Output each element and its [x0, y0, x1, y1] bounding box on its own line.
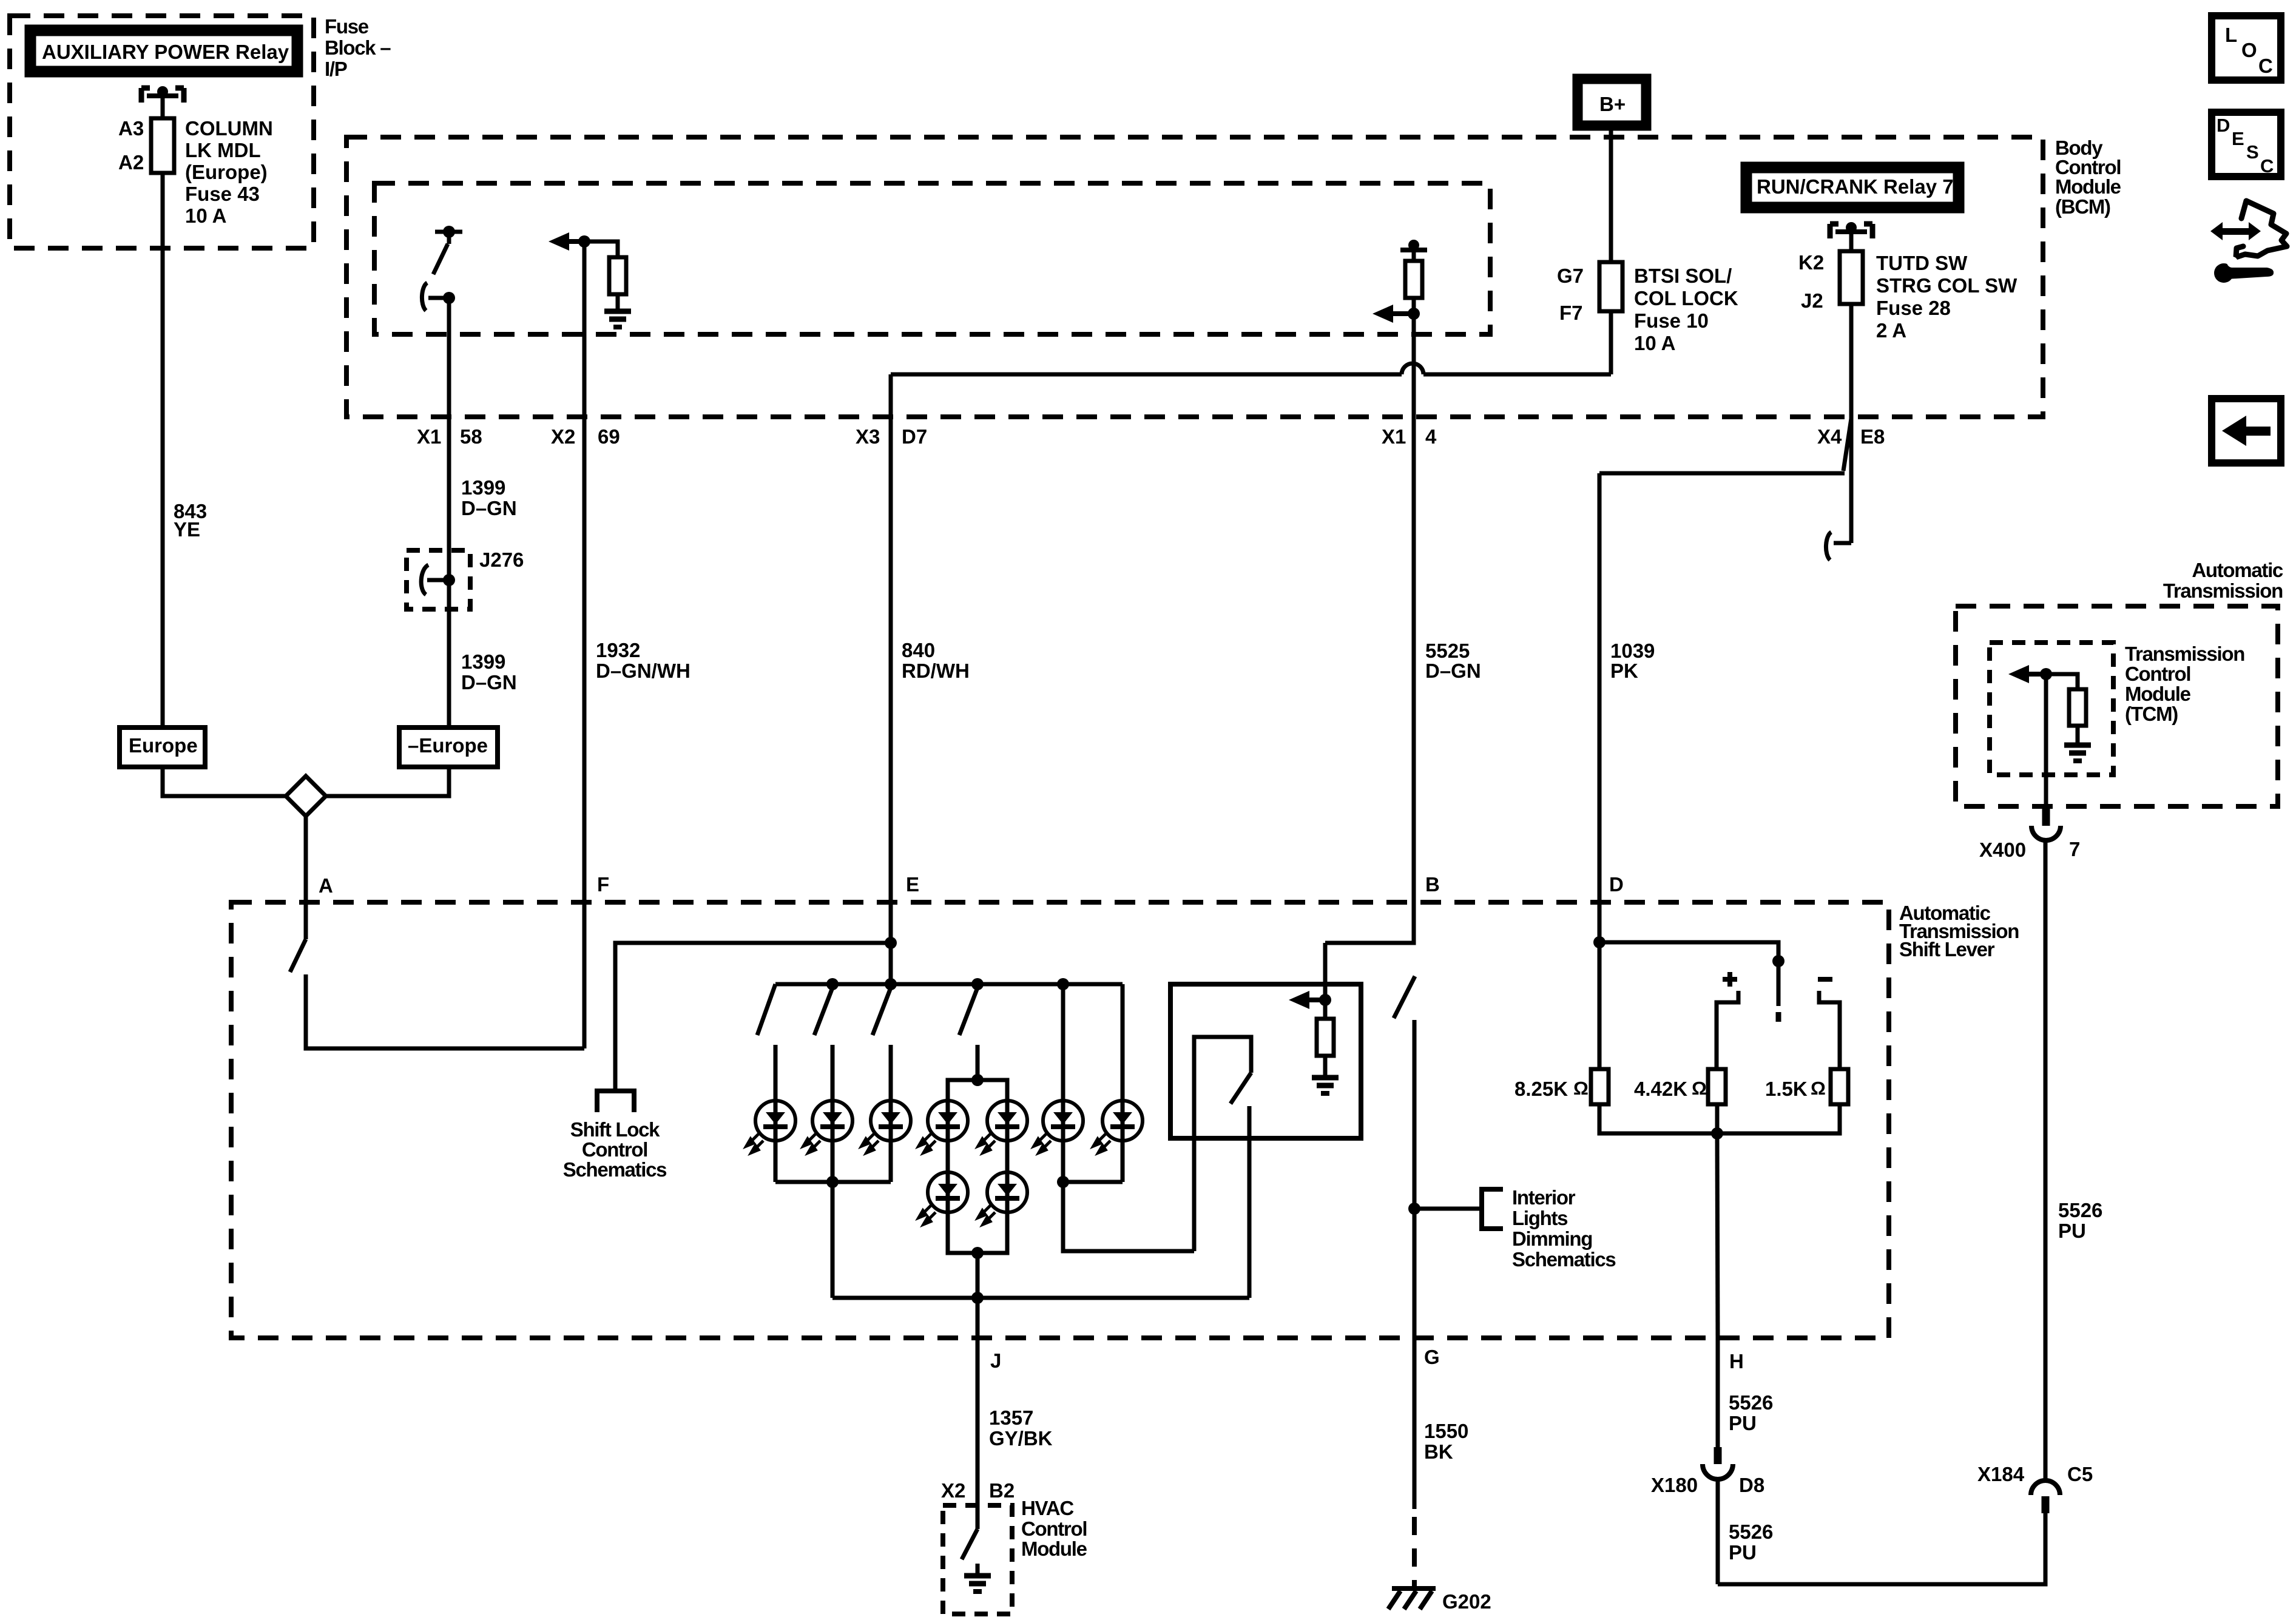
select box switch blade	[1231, 1073, 1251, 1104]
svg-text:5526: 5526	[2058, 1199, 2102, 1221]
svg-text:HVAC: HVAC	[1021, 1497, 1073, 1519]
wire 1550 BK solid	[1413, 1338, 1417, 1509]
wire 1039 PK	[1598, 473, 1602, 1069]
minus sign	[1818, 977, 1832, 982]
rocker common lower stub	[1776, 1012, 1781, 1022]
wire 1357 GY/BK	[976, 1298, 980, 1505]
label 1357 GY/BK	[989, 1406, 1053, 1450]
label Shift Lock Control Schematics	[563, 1118, 666, 1181]
wire shift lock branch	[615, 943, 891, 1091]
wire terminal to fuse	[161, 96, 165, 118]
wire E8 branch to 1039	[1599, 471, 1845, 476]
svg-text:X2: X2	[941, 1479, 965, 1502]
relay contact terminal	[141, 86, 184, 103]
label 1399 D-GN upper	[461, 476, 517, 519]
icon back arrow box	[2212, 399, 2281, 463]
label Transmission Control Module (TCM)	[2125, 643, 2244, 725]
svg-text:F: F	[597, 873, 609, 896]
LED D8	[919, 1172, 968, 1224]
label COLUMN LK MDL (Europe) Fuse 43 10 A	[185, 117, 273, 227]
shift lever outer dashed box	[231, 902, 1889, 1338]
node dot E shift-lock branch	[885, 937, 897, 949]
svg-text:O: O	[2241, 39, 2257, 61]
node dot TCM	[2040, 668, 2052, 680]
label HVAC Control Module	[1021, 1497, 1087, 1560]
svg-text:Block –: Block –	[325, 36, 391, 59]
pin label X2 B2	[941, 1479, 1015, 1502]
wire bus to LED D6	[1061, 984, 1065, 1101]
wire 5526 PU right	[2044, 840, 2048, 1480]
svg-text:E: E	[2232, 128, 2244, 149]
plus sign	[1723, 972, 1737, 987]
label 4.42K ohm	[1634, 1078, 1707, 1100]
pin A	[319, 874, 333, 897]
svg-text:C5: C5	[2067, 1463, 2093, 1485]
svg-text:1550: 1550	[1424, 1420, 1468, 1442]
label Fuse Block - I/P	[325, 15, 391, 80]
svg-text:1399: 1399	[461, 476, 505, 499]
node dot interior lights	[1408, 1203, 1420, 1215]
node dot X2-69	[578, 235, 590, 248]
svg-text:J: J	[990, 1349, 1001, 1372]
wire LED6 junction to select box leg	[1063, 1182, 1194, 1251]
svg-text:Ω: Ω	[1573, 1078, 1589, 1099]
svg-text:X1: X1	[1382, 425, 1406, 448]
wire 840 feed horizontal with hop	[891, 363, 1611, 374]
icon DESC box	[2212, 112, 2281, 177]
label 5525 D-GN	[1425, 640, 1481, 682]
fuse block I/P dashed box	[10, 16, 314, 248]
label 1932 D-GN/WH	[596, 639, 690, 682]
svg-text:1932: 1932	[596, 639, 640, 661]
page arrow at X1-4	[1373, 305, 1410, 323]
label 1550 BK	[1424, 1420, 1468, 1463]
label Automatic Transmission Shift Lever	[1899, 902, 2019, 960]
plus contact step	[1717, 991, 1738, 1069]
ground in BCM	[604, 311, 631, 327]
wire D branch to rocker common	[1599, 942, 1778, 1006]
BCM outer dashed box	[346, 137, 2043, 417]
svg-text:Ω: Ω	[1692, 1078, 1707, 1099]
pin K2	[1798, 251, 1824, 274]
svg-text:D–GN: D–GN	[461, 497, 517, 519]
svg-text:Fuse 43: Fuse 43	[185, 183, 260, 205]
svg-text:Control: Control	[2125, 663, 2190, 685]
svg-text:–Europe: –Europe	[408, 734, 488, 757]
label X184 C5	[1977, 1463, 2093, 1485]
label J276	[479, 549, 524, 571]
wire terminal to fuse F28	[1849, 232, 1854, 251]
svg-text:RUN/CRANK Relay 7: RUN/CRANK Relay 7	[1757, 175, 1954, 198]
svg-text:5525: 5525	[1425, 640, 1470, 662]
wire fuse F10 down	[1609, 311, 1613, 374]
svg-text:2 A: 2 A	[1876, 319, 1906, 342]
TCM inner dashed box	[1990, 643, 2113, 775]
svg-text:5526: 5526	[1729, 1521, 1773, 1543]
svg-text:PU: PU	[1729, 1412, 1757, 1434]
label 1399 D-GN lower	[461, 650, 517, 694]
switch SW1 for LED1	[757, 984, 775, 1101]
svg-text:Europe: Europe	[129, 734, 198, 757]
power feed B+	[1578, 79, 1646, 126]
wire switch A contact to F	[306, 974, 584, 1048]
chassis ground G202	[1388, 1588, 1436, 1609]
wire LEDs 1-3 lower bus	[775, 1141, 891, 1188]
svg-text:Interior: Interior	[1512, 1186, 1576, 1209]
svg-text:G7: G7	[1557, 265, 1584, 287]
wire LEDs 6-7 lower link	[1057, 1141, 1123, 1188]
wire B+ to fuse	[1609, 126, 1613, 262]
label G202	[1442, 1590, 1491, 1613]
relay RUN/CRANK contact terminal	[1830, 222, 1872, 238]
svg-text:PU: PU	[1729, 1541, 1757, 1564]
wire TCM to X400	[2044, 674, 2048, 807]
LED D4	[919, 1101, 968, 1153]
svg-text:X3: X3	[856, 425, 880, 448]
svg-text:COLUMN: COLUMN	[185, 117, 273, 140]
svg-text:PK: PK	[1610, 660, 1638, 682]
svg-text:Shift Lock: Shift Lock	[570, 1118, 660, 1141]
svg-text:BTSI SOL/: BTSI SOL/	[1634, 265, 1732, 287]
label 5526 PU lower	[1729, 1521, 1773, 1564]
node dot D branch	[1593, 936, 1606, 948]
LED D7	[1093, 1101, 1143, 1153]
svg-text:B2: B2	[989, 1479, 1015, 1502]
svg-text:D–GN: D–GN	[461, 671, 517, 694]
fuse F43 COLUMN LK MDL	[151, 118, 174, 173]
wire diamond to -Europe	[326, 767, 449, 796]
svg-text:(BCM): (BCM)	[2055, 195, 2110, 218]
resistor 1.5K	[1831, 1069, 1848, 1104]
wire 1550 upper (B switch contact to G)	[1413, 1020, 1417, 1338]
page arrow in TCM	[2008, 665, 2046, 683]
LED D2	[803, 1101, 853, 1153]
svg-text:RD/WH: RD/WH	[902, 660, 970, 682]
svg-text:(TCM): (TCM)	[2125, 703, 2178, 725]
wire 1932 D-GN/WH	[582, 241, 587, 1048]
pin H	[1729, 1350, 1744, 1372]
LED D3	[862, 1101, 911, 1153]
svg-text:Shift Lever: Shift Lever	[1899, 938, 1995, 960]
wire LED lower bus to J bus	[831, 1182, 835, 1298]
relay K: AUXILIARY POWER Relay	[30, 30, 297, 72]
inline connector X180-D8	[1703, 1447, 1733, 1479]
wire 5526 PU lower	[1716, 1479, 1720, 1584]
svg-text:4: 4	[1425, 425, 1437, 448]
automatic transmission dashed box	[1956, 606, 2278, 806]
svg-text:10 A: 10 A	[1634, 332, 1675, 354]
svg-text:H: H	[1729, 1350, 1744, 1372]
label 840 RD/WH	[902, 639, 970, 682]
svg-text:X184: X184	[1977, 1463, 2025, 1485]
pin A3	[118, 117, 144, 140]
label Interior Lights Dimming Schematics	[1512, 1186, 1615, 1271]
label 8.25K ohm	[1514, 1078, 1589, 1100]
resistor R4 in TCM	[2046, 674, 2086, 743]
svg-text:Schematics: Schematics	[563, 1158, 666, 1181]
svg-text:Transmission: Transmission	[2163, 579, 2283, 602]
svg-text:D7: D7	[902, 425, 927, 448]
wire H upper	[1717, 1133, 1718, 1338]
svg-text:Fuse 28: Fuse 28	[1876, 297, 1951, 319]
svg-text:I/P: I/P	[325, 58, 347, 80]
svg-text:Dimming: Dimming	[1512, 1227, 1592, 1250]
svg-text:S: S	[2246, 141, 2259, 163]
switch blade TUTD at E8	[1843, 419, 1851, 471]
ground in TCM	[2064, 745, 2091, 761]
svg-text:TUTD SW: TUTD SW	[1876, 252, 1968, 274]
svg-text:Module: Module	[2055, 175, 2121, 198]
svg-text:COL LOCK: COL LOCK	[1634, 287, 1738, 309]
HVAC control module dashed box	[943, 1505, 1012, 1614]
svg-text:5526: 5526	[1729, 1391, 1773, 1414]
svg-text:Schematics: Schematics	[1512, 1248, 1615, 1271]
svg-text:D–GN: D–GN	[1425, 660, 1481, 682]
svg-text:D–GN/WH: D–GN/WH	[596, 660, 690, 682]
svg-text:10 A: 10 A	[185, 204, 226, 227]
relay K2: RUN/CRANK Relay 7	[1746, 167, 1959, 208]
svg-text:1.5K: 1.5K	[1765, 1078, 1808, 1100]
svg-text:Control: Control	[1021, 1517, 1087, 1540]
wire bottom bus to X184	[1718, 1513, 2045, 1584]
label Body Control Module (BCM)	[2055, 137, 2121, 218]
wire 1550 BK dashed tail	[1412, 1517, 1417, 1590]
pin label X1 4	[1382, 425, 1437, 448]
svg-text:8.25K: 8.25K	[1514, 1078, 1568, 1100]
icon swap arrow with wrench	[2210, 201, 2287, 283]
svg-text:B+: B+	[1599, 93, 1626, 115]
node Europe	[120, 727, 205, 767]
label 5526 PU at H	[1729, 1391, 1773, 1434]
page arrow in select box	[1289, 991, 1326, 1009]
svg-text:Control: Control	[582, 1138, 647, 1161]
svg-text:C: C	[2258, 55, 2273, 77]
label BTSI SOL/ COL LOCK Fuse 10 10 A	[1634, 265, 1738, 354]
svg-text:Fuse 10: Fuse 10	[1634, 309, 1709, 332]
page arrow at X2-69 node	[549, 232, 586, 251]
LED D9	[978, 1172, 1027, 1224]
label TUTD SW STRG COL SW Fuse 28 2 A	[1876, 252, 2017, 342]
node dots on LED bus	[826, 978, 1069, 990]
switch A blade	[290, 939, 306, 972]
inline connector X184-C5	[2031, 1480, 2060, 1513]
switch SW4 for LED group	[959, 988, 977, 1080]
wire select box top link	[1323, 943, 1328, 1000]
svg-text:Module: Module	[2125, 683, 2191, 705]
svg-text:D: D	[1609, 873, 1624, 896]
wire X1-58 to J276	[447, 298, 451, 727]
minus contact step	[1819, 991, 1840, 1069]
resistor 4.42K	[1708, 1069, 1726, 1104]
resistor R2 at X1-4	[1405, 250, 1422, 314]
wire 840 RD/WH vertical	[889, 374, 893, 984]
svg-text:G202: G202	[1442, 1590, 1491, 1613]
pin F7	[1559, 302, 1583, 324]
svg-text:BK: BK	[1424, 1440, 1453, 1463]
svg-text:F7: F7	[1559, 302, 1583, 324]
svg-text:GY/BK: GY/BK	[989, 1427, 1053, 1450]
terminal at X1-4 branch	[1400, 240, 1427, 251]
svg-text:Fuse: Fuse	[325, 15, 369, 38]
label Automatic Transmission	[2163, 559, 2283, 602]
pin B	[1425, 873, 1440, 896]
wire Europe to diamond	[163, 767, 286, 796]
pin G7	[1557, 265, 1584, 287]
svg-text:D: D	[2217, 115, 2230, 136]
switch SW2 for LED2	[814, 988, 832, 1101]
svg-text:J276: J276	[479, 549, 524, 571]
wire bus right end to LED D7	[1121, 984, 1125, 1101]
inline connector J276	[407, 550, 470, 609]
inline connector X400-7	[2031, 806, 2061, 840]
wire diamond to switch A	[304, 816, 308, 939]
off-page bracket interior lights	[1482, 1189, 1503, 1229]
resistor 8.25K	[1591, 1069, 1609, 1104]
resistor network bottom bus	[1599, 1104, 1840, 1139]
pin F	[597, 873, 609, 896]
LED D6	[1034, 1101, 1083, 1153]
wire 5525 D-GN	[1412, 314, 1416, 943]
select switch box	[1170, 984, 1361, 1138]
svg-text:1039: 1039	[1610, 640, 1655, 662]
pin J2	[1801, 289, 1823, 312]
svg-text:LK MDL: LK MDL	[185, 139, 261, 161]
LED D5	[978, 1101, 1027, 1153]
svg-text:(Europe): (Europe)	[185, 161, 268, 183]
select box lower contact to J bus	[1248, 1106, 1252, 1298]
svg-text:YE: YE	[174, 518, 200, 541]
svg-text:C: C	[2260, 155, 2274, 177]
label X180 D8	[1651, 1474, 1764, 1496]
pin E	[906, 873, 919, 896]
svg-text:4.42K: 4.42K	[1634, 1078, 1687, 1100]
pin A2	[118, 151, 144, 174]
wire B corner to select box	[1325, 902, 1414, 943]
ground in HVAC	[964, 1564, 991, 1592]
svg-text:X180: X180	[1651, 1474, 1698, 1496]
resistor R1 in BCM	[584, 241, 626, 309]
wire 843 YE	[161, 173, 165, 727]
pin G	[1424, 1346, 1440, 1368]
svg-text:Transmission: Transmission	[2125, 643, 2244, 665]
svg-text:A2: A2	[118, 151, 144, 174]
LED bus wire	[775, 982, 1123, 987]
pin label X1 58	[417, 425, 482, 448]
svg-text:X400: X400	[1979, 839, 2026, 861]
switch SW3 for LED3	[873, 988, 891, 1101]
node dot X1-4	[1408, 308, 1420, 320]
label 1039 PK	[1610, 640, 1655, 682]
label X400 7	[1979, 838, 2080, 861]
svg-text:1357: 1357	[989, 1406, 1033, 1429]
pin label X4 E8	[1817, 425, 1885, 448]
svg-text:J2: J2	[1801, 289, 1823, 312]
pin D	[1609, 873, 1624, 896]
select box inner contact path	[1194, 1037, 1251, 1251]
switch in HVAC	[962, 1505, 977, 1559]
svg-text:PU: PU	[2058, 1220, 2086, 1242]
wire to interior lights bracket	[1414, 1207, 1482, 1211]
icon LOC box	[2212, 16, 2281, 80]
wire TUTD lower contact	[1826, 419, 1851, 560]
svg-text:Lights: Lights	[1512, 1207, 1567, 1229]
fuse F10 BTSI SOL/COL LOCK	[1599, 262, 1622, 311]
svg-text:A3: A3	[118, 117, 144, 140]
wire LED group box to J bus	[976, 1253, 980, 1298]
node dot select box	[1319, 994, 1331, 1006]
svg-text:Ω: Ω	[1811, 1078, 1826, 1099]
svg-text:L: L	[2225, 24, 2237, 46]
switch blade B	[1394, 976, 1415, 1018]
svg-text:A: A	[319, 874, 333, 897]
svg-text:Automatic: Automatic	[2192, 559, 2283, 581]
wire F inside box	[582, 902, 587, 1048]
svg-text:STRG COL SW: STRG COL SW	[1876, 274, 2017, 297]
svg-text:1399: 1399	[461, 650, 505, 673]
svg-text:840: 840	[902, 639, 935, 661]
svg-text:58: 58	[460, 425, 482, 448]
svg-text:E: E	[906, 873, 919, 896]
LED D1	[746, 1101, 795, 1153]
label 1.5K ohm	[1765, 1078, 1826, 1100]
svg-text:D8: D8	[1739, 1474, 1764, 1496]
wire fuse F28 to pin E8	[1849, 304, 1854, 419]
BCM inner dashed box	[374, 183, 1490, 334]
J bottom bus wire	[832, 1292, 1249, 1304]
svg-text:K2: K2	[1798, 251, 1824, 274]
label 5526 PU right	[2058, 1199, 2102, 1242]
node -Europe	[399, 727, 498, 767]
svg-text:E8: E8	[1860, 425, 1885, 448]
node dot rocker	[1772, 955, 1784, 967]
svg-text:7: 7	[2069, 838, 2080, 860]
pin label X2 69	[551, 425, 620, 448]
svg-text:G: G	[1424, 1346, 1440, 1368]
svg-text:B: B	[1425, 873, 1440, 896]
label 843 YE	[174, 500, 207, 541]
pin J	[990, 1349, 1001, 1372]
svg-text:69: 69	[598, 425, 620, 448]
wire H to X180	[1716, 1338, 1720, 1447]
svg-text:X1: X1	[417, 425, 441, 448]
svg-text:X4: X4	[1817, 425, 1842, 448]
svg-text:Module: Module	[1021, 1538, 1087, 1560]
svg-text:AUXILIARY POWER Relay: AUXILIARY POWER Relay	[42, 41, 289, 63]
ground in select box	[1312, 1078, 1339, 1093]
resistor R3 in select box	[1317, 1000, 1334, 1075]
switch S1 in BCM (X1-58 output)	[433, 226, 462, 274]
LED group box	[948, 1074, 1007, 1259]
connector hook at switch S1	[422, 283, 455, 311]
off-page bracket shift lock	[597, 1091, 634, 1112]
fuse F28 TUTD SW	[1840, 251, 1863, 304]
splice diamond	[286, 776, 326, 816]
pin label X3 D7	[856, 425, 927, 448]
svg-text:X2: X2	[551, 425, 575, 448]
